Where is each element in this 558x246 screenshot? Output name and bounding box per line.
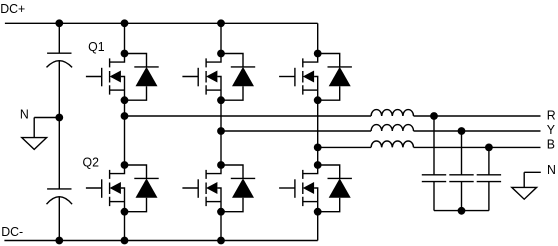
diode D4 (anti-parallel, Q4) xyxy=(221,165,255,212)
junction: Q1 source / D1 anode xyxy=(121,96,129,104)
junction: DC- rail / leg 2 xyxy=(217,237,225,245)
junction: phase Y / C4 xyxy=(458,127,466,135)
wire: phase B output xyxy=(414,146,541,148)
wire: leg 1 midpoint xyxy=(124,100,126,165)
transistor Q1 (high-side MOSFET, leg 1) xyxy=(86,54,125,101)
wire: phase B from leg 3 to L3 xyxy=(318,146,371,148)
wire: phase Y output xyxy=(414,130,541,132)
junction: DC+ rail / leg 1 xyxy=(121,19,129,27)
transistor Q3 (high-side MOSFET, leg 2) xyxy=(182,54,221,101)
junction: Q6 source / D6 anode xyxy=(314,208,322,216)
junction: Q2 drain / D2 cathode xyxy=(121,161,129,169)
ground (right) xyxy=(512,187,537,199)
junction: star bus xyxy=(458,207,466,215)
junction: Q5 source / D5 anode xyxy=(314,96,322,104)
capacitor C5 (phase B filter) xyxy=(477,175,501,182)
wire: DC+ rail to Q3 drain xyxy=(220,23,222,53)
wire: C3 to star bus xyxy=(433,182,435,211)
wire: N label to node N xyxy=(34,117,59,119)
junction: Q5 drain / D5 cathode xyxy=(314,50,322,58)
wire: DC+ rail xyxy=(5,22,318,24)
junction: node N (left) xyxy=(55,114,63,122)
wire: node N to ground (left) xyxy=(33,118,35,138)
wire: DC+ rail to Q5 drain xyxy=(317,23,319,53)
junction: Q4 source / D4 anode xyxy=(217,208,225,216)
junction: phase R / C3 xyxy=(430,112,438,120)
transistor Q4 (low-side MOSFET, leg 2) xyxy=(182,165,221,212)
wire: node N to C2 xyxy=(58,118,60,189)
junction: DC+ rail / C1 xyxy=(55,19,63,27)
wire: C4 to star bus xyxy=(461,182,463,211)
wire: DC+ rail to C1 xyxy=(58,23,60,53)
junction: Q2 source / D2 anode xyxy=(121,208,129,216)
junction: DC- rail / leg 1 xyxy=(121,237,129,245)
svg-text:N: N xyxy=(20,107,29,121)
wire: C1 to node N xyxy=(58,61,60,118)
wire: Q4 source to DC- rail xyxy=(220,212,222,241)
transistor Q2 (low-side MOSFET, leg 1) xyxy=(86,165,125,212)
svg-text:Y: Y xyxy=(547,123,556,137)
transistor Q5 (high-side MOSFET, leg 3) xyxy=(279,54,318,101)
diode D1 (anti-parallel, Q1) xyxy=(125,54,159,101)
junction: Q6 drain / D6 cathode xyxy=(314,161,322,169)
wire: phase Y from leg 2 to L2 xyxy=(221,130,371,132)
diode D2 (anti-parallel, Q2) xyxy=(125,165,159,212)
wire: leg 2 midpoint xyxy=(220,100,222,165)
wire: C2 to DC- rail xyxy=(58,197,60,241)
capacitor C1 (top DC-link electrolytic) xyxy=(47,53,73,67)
wire: leg 3 midpoint xyxy=(317,100,319,165)
svg-text:N: N xyxy=(547,163,556,177)
wire: DC- rail xyxy=(4,240,317,242)
capacitor C2 (bottom DC-link electrolytic) xyxy=(47,189,73,204)
wire: phase B to C5 xyxy=(488,147,490,174)
diode D5 (anti-parallel, Q5) xyxy=(318,54,352,101)
svg-text:B: B xyxy=(547,137,555,151)
junction: DC- rail / C2 xyxy=(55,237,63,245)
wire: phase R from leg 1 to L1 xyxy=(125,115,372,117)
wire: filter capacitor star bus xyxy=(434,210,489,212)
junction: DC+ rail / leg 2 xyxy=(217,19,225,27)
svg-text:Q1: Q1 xyxy=(88,40,104,54)
wire: phase Y to C4 xyxy=(461,131,463,175)
diode D6 (anti-parallel, Q6) xyxy=(318,165,352,212)
wire: phase R to C3 xyxy=(433,116,435,175)
wire: Q2 source to DC- rail xyxy=(124,212,126,241)
inductor L2 (phase Y filter) xyxy=(371,125,413,131)
ground (left) xyxy=(22,138,47,150)
capacitor C3 (phase R filter) xyxy=(422,175,446,182)
junction: leg 3 midpoint / phase line xyxy=(314,144,322,152)
junction: phase B / C5 xyxy=(485,144,493,152)
diode D3 (anti-parallel, Q3) xyxy=(221,54,255,101)
svg-text:DC+: DC+ xyxy=(0,2,25,16)
wire: C5 to star bus xyxy=(488,182,490,211)
wire: Q6 source to DC- rail xyxy=(317,212,319,241)
svg-text:DC-: DC- xyxy=(1,225,23,239)
junction: Q4 drain / D4 cathode xyxy=(217,161,225,169)
wire: phase R output xyxy=(414,115,541,117)
junction: Q3 source / D3 anode xyxy=(217,96,225,104)
inductor L1 (phase R filter) xyxy=(371,110,413,116)
svg-text:R: R xyxy=(547,108,556,122)
wire: N label to ground (right) xyxy=(524,171,541,173)
capacitor C4 (phase Y filter) xyxy=(449,175,473,182)
junction: leg 1 midpoint / phase line xyxy=(121,112,129,120)
svg-text:Q2: Q2 xyxy=(83,155,99,169)
junction: Q3 drain / D3 cathode xyxy=(217,50,225,58)
wire: DC+ rail to Q1 drain xyxy=(124,23,126,53)
junction: leg 2 midpoint / phase line xyxy=(217,127,225,135)
transistor Q6 (low-side MOSFET, leg 3) xyxy=(279,165,318,212)
inductor L3 (phase B filter) xyxy=(371,141,413,147)
junction: Q1 drain / D1 cathode xyxy=(121,50,129,58)
wire: N drop to ground (right) xyxy=(523,172,525,187)
